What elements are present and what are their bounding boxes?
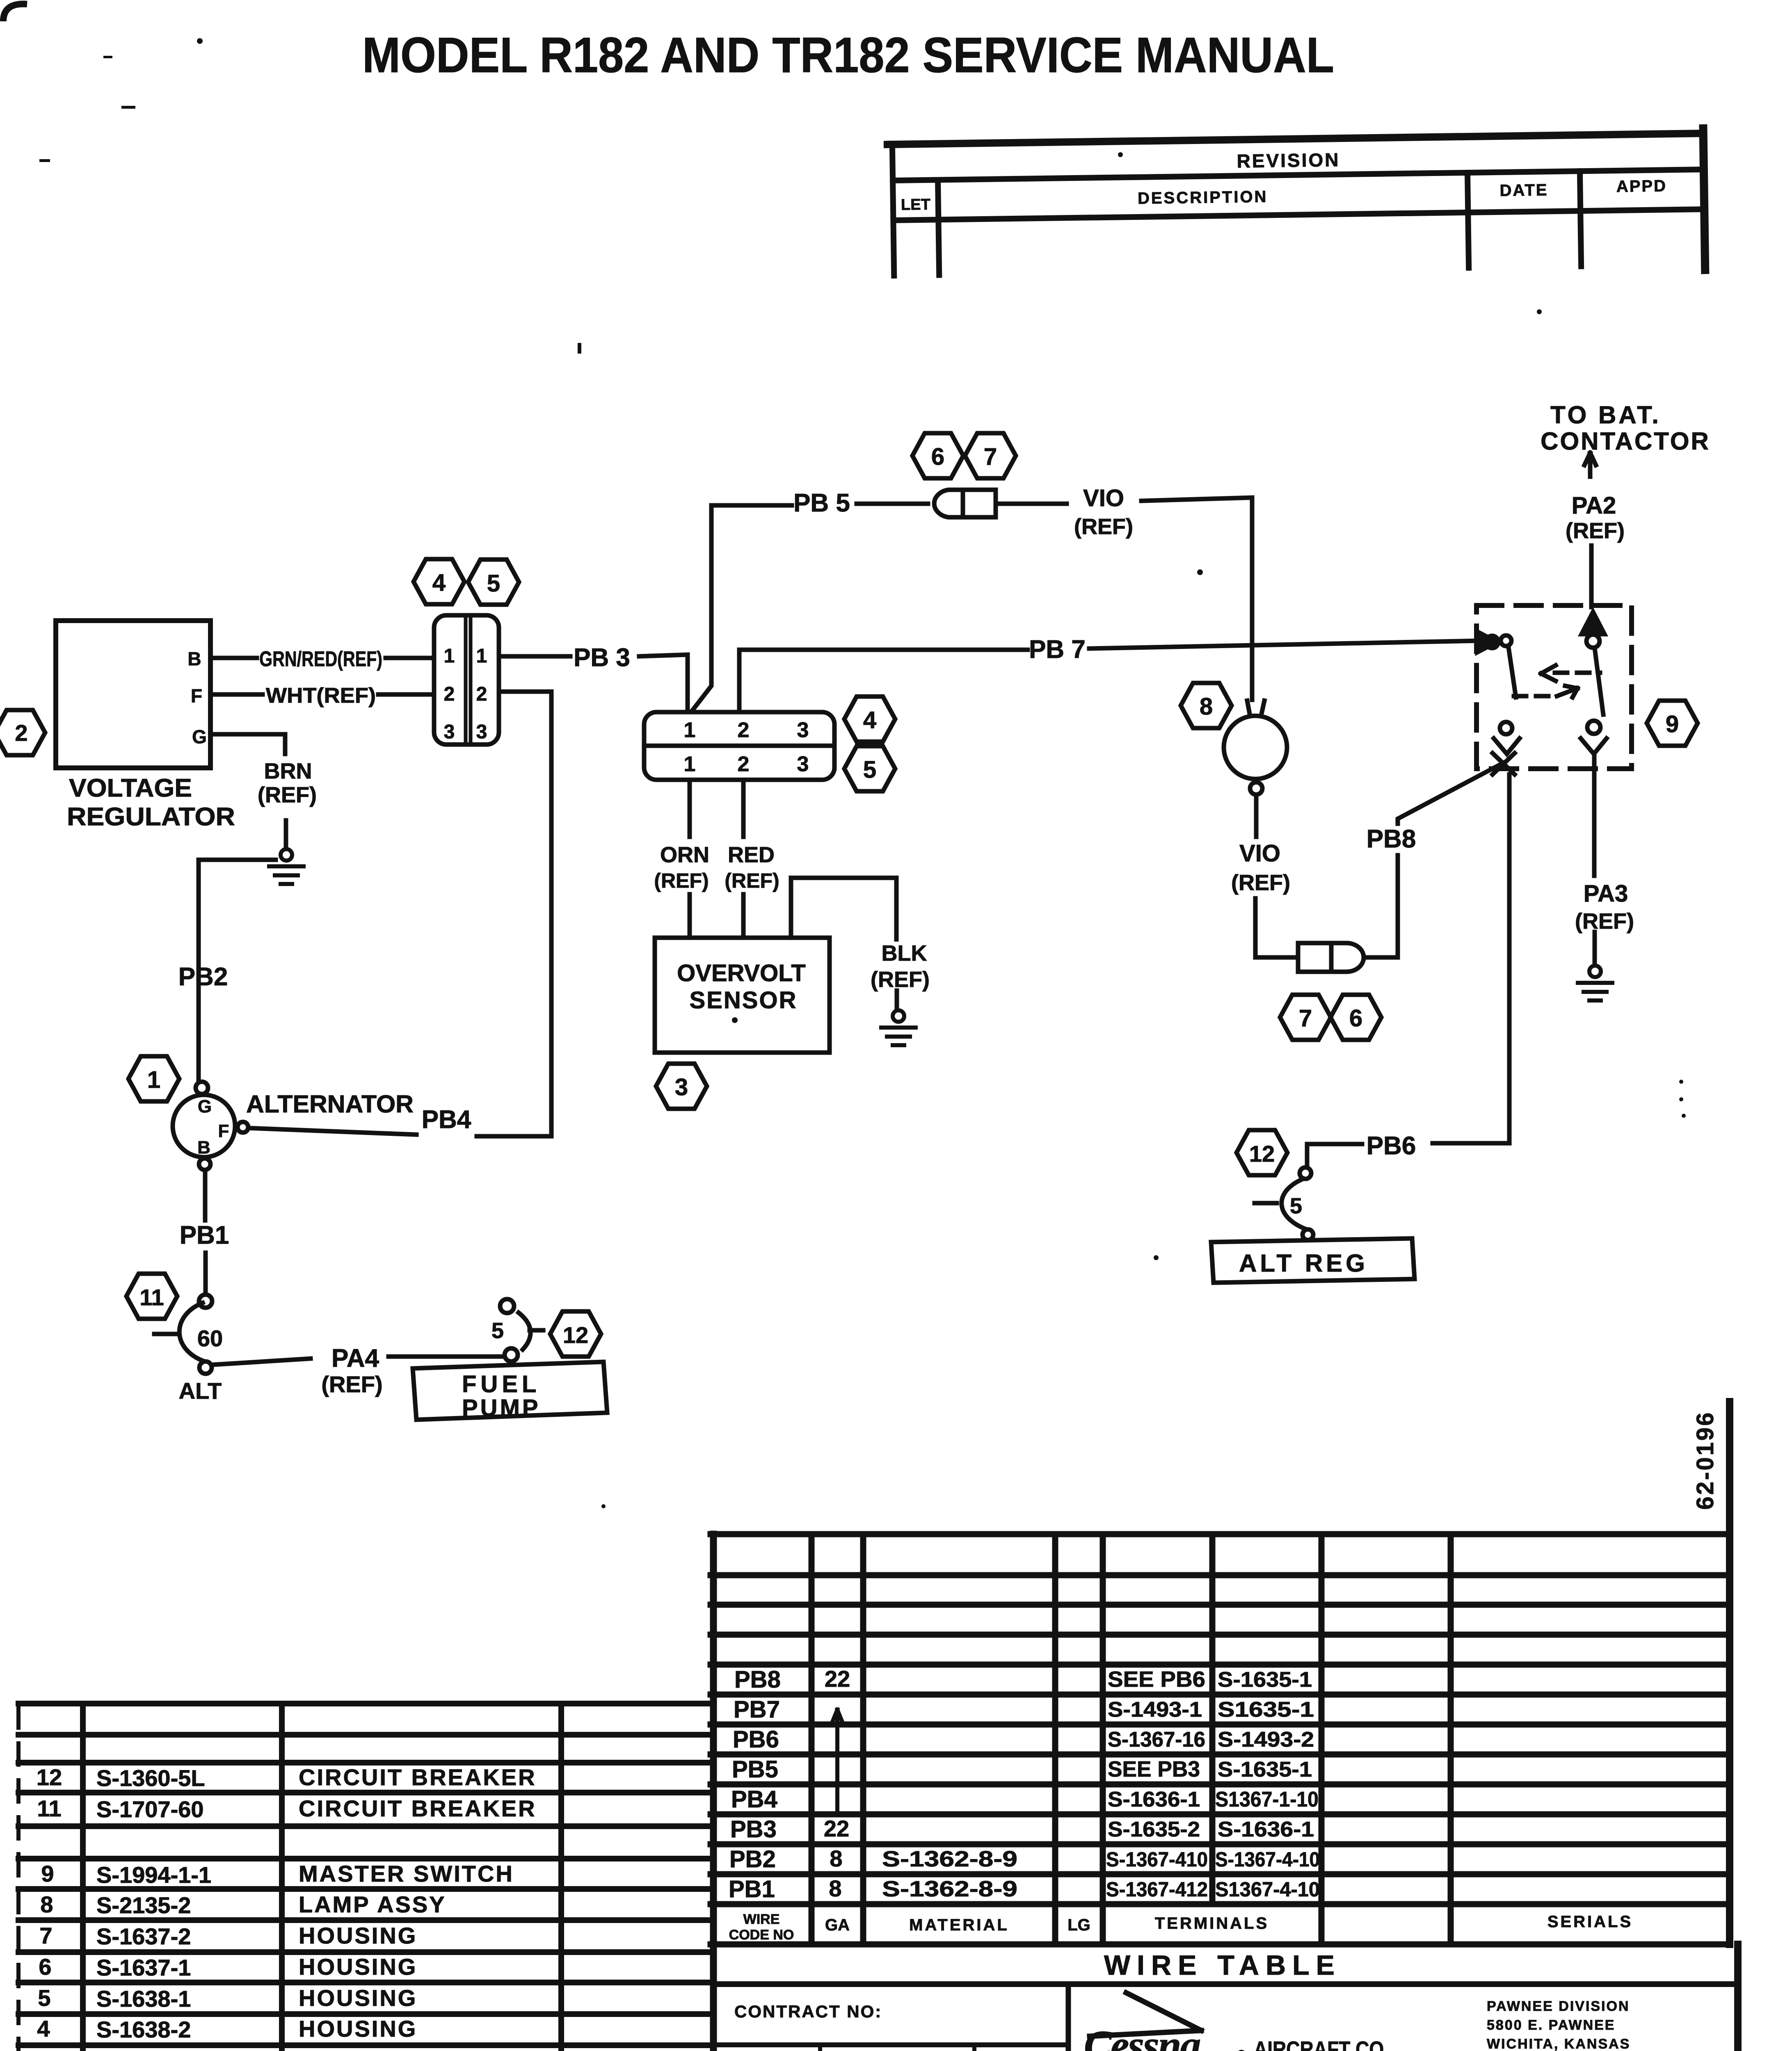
- svg-text:8: 8: [829, 1875, 841, 1901]
- svg-text:2: 2: [15, 720, 27, 746]
- svg-text:S-1636-1: S-1636-1: [1108, 1788, 1200, 1811]
- svg-text:B: B: [197, 1137, 210, 1158]
- svg-text:PB2: PB2: [729, 1846, 776, 1873]
- svg-text:PB2: PB2: [178, 963, 228, 991]
- svg-text:(REF): (REF): [654, 869, 709, 892]
- svg-text:WICHITA, KANSAS: WICHITA, KANSAS: [1487, 2036, 1630, 2051]
- svg-text:LG: LG: [1067, 1916, 1090, 1934]
- svg-text:VIO: VIO: [1239, 840, 1280, 867]
- svg-text:7: 7: [1299, 1005, 1312, 1032]
- svg-text:5: 5: [491, 1318, 504, 1343]
- svg-text:62-0196: 62-0196: [1692, 1411, 1719, 1510]
- svg-text:S-1635-2: S-1635-2: [1108, 1818, 1200, 1841]
- svg-text:HOUSING: HOUSING: [299, 1985, 417, 2011]
- svg-text:1: 1: [147, 1067, 160, 1093]
- svg-text:PB3: PB3: [730, 1816, 777, 1843]
- svg-text:11: 11: [37, 1795, 61, 1821]
- svg-text:S-1367-412: S-1367-412: [1106, 1878, 1208, 1901]
- svg-text:(REF): (REF): [1074, 514, 1133, 539]
- svg-text:WIRE TABLE: WIRE TABLE: [1104, 1950, 1341, 1981]
- svg-text:PAWNEE DIVISION: PAWNEE DIVISION: [1487, 1998, 1630, 2014]
- svg-text:PB1: PB1: [180, 1221, 229, 1249]
- svg-text:ORN: ORN: [660, 843, 709, 867]
- svg-text:MODEL R182 AND TR182 SERVICE M: MODEL R182 AND TR182 SERVICE MANUAL: [362, 27, 1334, 83]
- svg-text:OVERVOLT: OVERVOLT: [677, 960, 806, 987]
- svg-text:PB6: PB6: [733, 1726, 779, 1753]
- svg-text:AIRCRAFT CO.: AIRCRAFT CO.: [1254, 2037, 1389, 2051]
- svg-text:ALT: ALT: [179, 1378, 222, 1404]
- svg-text:PA3: PA3: [1584, 880, 1628, 907]
- svg-text:8: 8: [830, 1845, 842, 1871]
- svg-text:2: 2: [738, 752, 750, 776]
- svg-text:CODE NO: CODE NO: [729, 1927, 794, 1943]
- svg-text:(REF): (REF): [321, 1371, 382, 1397]
- svg-text:PB4: PB4: [422, 1105, 471, 1134]
- svg-text:TO BAT.: TO BAT.: [1550, 401, 1661, 429]
- svg-text:PB8: PB8: [1367, 825, 1416, 853]
- svg-text:1: 1: [684, 752, 696, 776]
- svg-text:S-1637-1: S-1637-1: [96, 1955, 191, 1980]
- svg-text:5800 E. PAWNEE: 5800 E. PAWNEE: [1487, 2017, 1616, 2033]
- svg-text:HOUSING: HOUSING: [299, 1923, 417, 1948]
- svg-text:PB1: PB1: [729, 1876, 775, 1903]
- svg-text:(REF): (REF): [258, 783, 317, 807]
- svg-text:6: 6: [931, 443, 944, 470]
- svg-text:11: 11: [139, 1284, 164, 1310]
- svg-text:PB 7: PB 7: [1029, 635, 1086, 664]
- svg-text:LAMP ASSY: LAMP ASSY: [299, 1891, 446, 1917]
- svg-text:ALT REG: ALT REG: [1239, 1249, 1368, 1277]
- svg-text:1: 1: [444, 645, 455, 667]
- svg-text:HOUSING: HOUSING: [299, 2016, 417, 2042]
- svg-text:S-1994-1-1: S-1994-1-1: [96, 1862, 211, 1888]
- svg-text:MATERIAL: MATERIAL: [909, 1916, 1009, 1934]
- svg-text:5: 5: [38, 1985, 50, 2011]
- svg-text:S-1707-60: S-1707-60: [96, 1796, 204, 1822]
- svg-text:GRN/RED(REF): GRN/RED(REF): [259, 647, 382, 671]
- svg-text:S-1493-1: S-1493-1: [1108, 1698, 1202, 1722]
- svg-text:12: 12: [37, 1764, 62, 1790]
- svg-text:S-1362-8-9: S-1362-8-9: [882, 1847, 1017, 1871]
- svg-text:4: 4: [863, 707, 876, 733]
- svg-text:G: G: [198, 1096, 212, 1117]
- svg-text:2: 2: [444, 683, 455, 705]
- svg-text:S-1635-1: S-1635-1: [1218, 1758, 1312, 1781]
- svg-text:3: 3: [797, 752, 809, 776]
- svg-text:PB 5: PB 5: [793, 489, 850, 517]
- svg-text:S1367-4-10: S1367-4-10: [1215, 1878, 1320, 1901]
- svg-text:1: 1: [476, 645, 487, 667]
- svg-text:HOUSING: HOUSING: [299, 1954, 417, 1980]
- svg-text:DESCRIPTION: DESCRIPTION: [1138, 188, 1268, 208]
- svg-text:B: B: [187, 648, 201, 669]
- svg-text:S-1638-1: S-1638-1: [96, 1986, 191, 2012]
- svg-text:PB 3: PB 3: [574, 644, 630, 672]
- svg-text:5: 5: [1290, 1194, 1302, 1218]
- svg-text:PB4: PB4: [731, 1786, 777, 1813]
- svg-text:(REF): (REF): [725, 869, 779, 892]
- svg-text:6: 6: [39, 1954, 51, 1980]
- svg-text:8: 8: [40, 1891, 53, 1917]
- svg-text:PB6: PB6: [1367, 1132, 1416, 1160]
- svg-text:CIRCUIT BREAKER: CIRCUIT BREAKER: [299, 1764, 537, 1790]
- svg-text:1: 1: [684, 718, 696, 742]
- svg-text:MASTER SWITCH: MASTER SWITCH: [299, 1861, 514, 1887]
- svg-text:12: 12: [1249, 1141, 1275, 1167]
- svg-text:PA2: PA2: [1572, 492, 1616, 519]
- svg-text:2: 2: [738, 718, 750, 742]
- svg-text:SERIALS: SERIALS: [1547, 1913, 1633, 1931]
- svg-text:3: 3: [797, 718, 809, 742]
- svg-text:ALTERNATOR: ALTERNATOR: [246, 1090, 414, 1118]
- svg-text:PA4: PA4: [331, 1344, 379, 1373]
- svg-text:CONTRACT NO:: CONTRACT NO:: [734, 2002, 882, 2021]
- svg-text:TERMINALS: TERMINALS: [1155, 1914, 1269, 1932]
- svg-text:PB7: PB7: [734, 1696, 780, 1723]
- svg-text:VOLTAGE: VOLTAGE: [69, 774, 192, 802]
- svg-text:S-1638-2: S-1638-2: [96, 2017, 191, 2042]
- svg-text:7: 7: [39, 1923, 52, 1948]
- svg-text:4: 4: [432, 569, 446, 596]
- svg-text:S-1636-1: S-1636-1: [1218, 1818, 1314, 1841]
- svg-text:VIO: VIO: [1083, 485, 1124, 512]
- svg-text:S-1367-410: S-1367-410: [1106, 1848, 1208, 1871]
- svg-text:FUEL: FUEL: [462, 1371, 540, 1398]
- svg-text:5: 5: [487, 570, 500, 597]
- svg-text:3: 3: [476, 721, 487, 743]
- svg-text:RED: RED: [728, 843, 775, 867]
- svg-text:S-1493-2: S-1493-2: [1218, 1728, 1314, 1752]
- svg-text:3: 3: [444, 721, 455, 743]
- svg-text:LET: LET: [901, 196, 930, 214]
- svg-text:F: F: [218, 1121, 229, 1141]
- svg-text:Cessna: Cessna: [1084, 2022, 1200, 2051]
- svg-text:60: 60: [197, 1325, 223, 1351]
- svg-text:SENSOR: SENSOR: [690, 987, 798, 1014]
- svg-text:22: 22: [825, 1666, 850, 1692]
- svg-text:DATE: DATE: [1499, 181, 1548, 200]
- svg-text:S-1635-1: S-1635-1: [1218, 1668, 1312, 1692]
- svg-text:CONTACTOR: CONTACTOR: [1541, 427, 1710, 455]
- svg-text:6: 6: [1349, 1005, 1362, 1032]
- svg-text:3: 3: [36, 2048, 49, 2051]
- svg-text:WHT(REF): WHT(REF): [266, 684, 376, 708]
- svg-text:F: F: [191, 685, 202, 706]
- svg-text:REVISION: REVISION: [1237, 149, 1340, 171]
- svg-text:G: G: [192, 726, 207, 747]
- svg-text:S1635-1: S1635-1: [1218, 1698, 1314, 1722]
- svg-text:(REF): (REF): [1566, 518, 1625, 543]
- svg-text:SEE PB3: SEE PB3: [1108, 1757, 1200, 1781]
- svg-text:REGULATOR: REGULATOR: [67, 803, 235, 831]
- svg-text:APPD: APPD: [1616, 177, 1667, 196]
- svg-text:PB5: PB5: [732, 1756, 778, 1783]
- svg-text:S-1637-2: S-1637-2: [96, 1923, 191, 1949]
- svg-text:3: 3: [675, 1074, 688, 1101]
- svg-text:7: 7: [984, 443, 997, 470]
- svg-text:CIRCUIT BREAKER: CIRCUIT BREAKER: [299, 1795, 537, 1821]
- svg-text:PB8: PB8: [734, 1666, 781, 1693]
- svg-text:S-1367-16: S-1367-16: [1108, 1728, 1205, 1752]
- svg-text:WIRE: WIRE: [743, 1912, 780, 1927]
- svg-text:2: 2: [476, 683, 487, 705]
- svg-text:(REF): (REF): [871, 967, 930, 992]
- svg-text:S-1360-5L: S-1360-5L: [96, 1765, 205, 1791]
- svg-text:S-2135-2: S-2135-2: [96, 1892, 191, 1918]
- svg-text:9: 9: [1666, 711, 1679, 738]
- svg-text:SEE PB6: SEE PB6: [1108, 1667, 1205, 1692]
- svg-text:8: 8: [1200, 693, 1213, 720]
- svg-text:S-1367-4-10: S-1367-4-10: [1215, 1848, 1320, 1871]
- svg-text:(REF): (REF): [1575, 909, 1634, 934]
- svg-text:4: 4: [37, 2016, 50, 2042]
- svg-text:12: 12: [563, 1322, 588, 1348]
- svg-text:BLK: BLK: [882, 941, 927, 966]
- svg-text:BRN: BRN: [264, 759, 312, 783]
- svg-text:9: 9: [41, 1861, 54, 1887]
- svg-text:GA: GA: [825, 1916, 850, 1934]
- svg-text:5: 5: [863, 756, 876, 783]
- svg-text:22: 22: [824, 1816, 849, 1841]
- svg-text:PUMP: PUMP: [462, 1395, 541, 1421]
- svg-text:(REF): (REF): [1231, 870, 1290, 895]
- svg-text:S1367-1-10: S1367-1-10: [1215, 1788, 1319, 1811]
- svg-text:S-1362-8-9: S-1362-8-9: [882, 1877, 1017, 1901]
